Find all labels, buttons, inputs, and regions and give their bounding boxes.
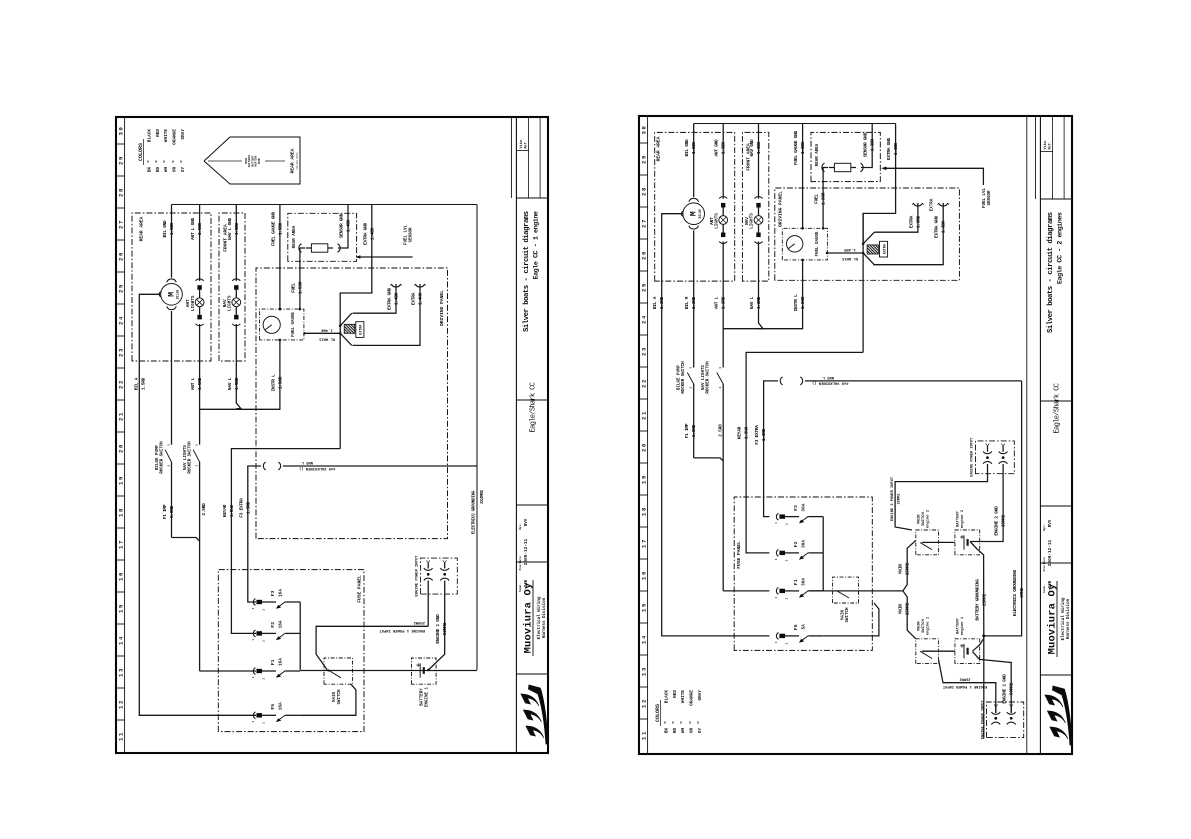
svg-text:F1 IMP: F1 IMP	[684, 423, 690, 438]
svg-text:RED: RED	[673, 690, 678, 698]
fuse output bus	[822, 517, 824, 591]
svg-text:F1 IMP: F1 IMP	[162, 504, 168, 519]
svg-text:GY: GY	[698, 728, 703, 734]
svg-text:NAV LIGHTS: NAV LIGHTS	[702, 365, 706, 390]
svg-text:GY: GY	[181, 167, 186, 173]
svg-text:EXTRA GND: EXTRA GND	[387, 288, 393, 310]
bullet wires	[427, 581, 429, 595]
svg-text:F3: F3	[793, 505, 799, 511]
svg-text:=: =	[155, 160, 160, 163]
fuel wire	[299, 248, 301, 309]
lamp NAV	[232, 279, 240, 281]
svg-text:=: =	[180, 160, 185, 163]
svg-text:26: 26	[641, 250, 648, 260]
svg-text:RVV: RVV	[525, 518, 529, 526]
svg-text:Eagle/Shark CC: Eagle/Shark CC	[530, 382, 538, 432]
svg-text:14: 14	[641, 634, 648, 644]
svg-text:1.4BK: 1.4BK	[346, 219, 352, 232]
title block strip	[515, 117, 517, 753]
svg-text:EXTRA: EXTRA	[411, 292, 417, 305]
motor M bilge pump	[161, 283, 183, 305]
svg-text:1.3RD: 1.3RD	[691, 296, 697, 309]
fuse panel dashed box	[218, 570, 364, 732]
svg-text:EXTRA: EXTRA	[908, 215, 914, 228]
svg-text:F3 EXTRA: F3 EXTRA	[238, 498, 244, 518]
svg-text:Suun.: Suun.	[519, 583, 522, 592]
page 1 : Eagle CC - 1 engine schematic (rotated)	[115, 116, 549, 754]
svg-text:EXTRA: EXTRA	[883, 243, 887, 254]
svg-text:25MM2: 25MM2	[898, 493, 902, 504]
svg-text:EXTRA GND: EXTRA GND	[362, 223, 368, 245]
svg-text:LIGHTS: LIGHTS	[228, 295, 233, 311]
svg-text:20: 20	[118, 443, 125, 453]
svg-text:MAIN: MAIN	[918, 514, 922, 524]
svg-text:NAV L: NAV L	[227, 377, 233, 390]
svg-text:Eagle CC - 2 engines: Eagle CC - 2 engines	[1056, 212, 1064, 284]
svg-text:EXTRA GND: EXTRA GND	[934, 216, 940, 238]
wire BIL A	[662, 214, 770, 636]
fuel gauge dashed box	[782, 228, 827, 260]
main line to battery	[300, 670, 477, 672]
svg-text:15: 15	[641, 602, 648, 612]
svg-text:BILGE PUMP: BILGE PUMP	[156, 445, 160, 470]
svg-text:REAR AREA: REAR AREA	[293, 225, 297, 248]
svg-text:ENGINE 1 POWER INPUT: ENGINE 1 POWER INPUT	[942, 684, 987, 688]
svg-text:1.3RD: 1.3RD	[721, 296, 727, 309]
svg-text:FUEL LVL: FUEL LVL	[983, 187, 987, 208]
svg-text:ENGINE 1 GND: ENGINE 1 GND	[1002, 674, 1008, 704]
svg-text:Eagle CC - 1 engine: Eagle CC - 1 engine	[532, 211, 540, 279]
svg-text:NAV LIGHTS: NAV LIGHTS	[184, 445, 188, 470]
svg-text:BATTERY: BATTERY	[421, 688, 425, 706]
svg-text:RVV: RVV	[1049, 519, 1053, 527]
ground bus wire	[172, 204, 478, 206]
svg-text:3: 3	[719, 367, 722, 369]
svg-text:MAIN: MAIN	[841, 610, 845, 620]
svg-text:ENGINE 1: ENGINE 1	[425, 687, 429, 707]
kl wh15 wire	[827, 252, 863, 254]
main switch engine 1 box	[916, 639, 939, 664]
svg-text:F2: F2	[270, 622, 276, 628]
battery engine 2 box	[955, 530, 980, 555]
svg-text:1.4BK: 1.4BK	[369, 227, 375, 240]
svg-text:OR: OR	[173, 167, 178, 173]
svg-text:LIGHTS: LIGHTS	[191, 295, 196, 311]
driving panel dashed box	[256, 268, 448, 539]
svg-text:FUSE PANEL: FUSE PANEL	[357, 575, 363, 603]
svg-text:4x0 VALKOINEN (): 4x0 VALKOINEN ()	[812, 381, 848, 386]
svg-text:2: 2	[786, 642, 789, 644]
fuel gauge	[263, 316, 280, 333]
svg-text:engine 1: engine 1	[960, 616, 965, 635]
battery symbol	[419, 663, 421, 677]
extra socket arcs	[391, 284, 400, 287]
svg-text:Suun.: Suun.	[1043, 584, 1046, 593]
svg-text:FUEL: FUEL	[290, 283, 296, 293]
svg-text:1.3RD: 1.3RD	[659, 296, 665, 309]
svg-text:NAV L GND: NAV L GND	[227, 218, 233, 240]
svg-text:REAR AREA: REAR AREA	[139, 216, 145, 241]
svg-text:2X4MM2: 2X4MM2	[480, 489, 485, 503]
nav lights chain	[235, 205, 237, 282]
svg-text:2: 2	[167, 464, 170, 466]
fuse F2 30A	[776, 550, 778, 557]
engine 1 power input box	[987, 702, 1024, 738]
svg-text:ENGINE 2 POWER INPUT: ENGINE 2 POWER INPUT	[891, 476, 895, 521]
svg-text:RD: RD	[673, 728, 678, 734]
svg-text:DRIVING PANEL: DRIVING PANEL	[778, 191, 784, 227]
svg-text:=: =	[680, 721, 685, 724]
svg-text:FUEL GAUGE: FUEL GAUGE	[816, 231, 820, 256]
extra continue to F2	[862, 213, 864, 352]
svg-text:25MM2: 25MM2	[905, 562, 911, 575]
front area dashed box	[742, 132, 768, 281]
svg-text:F1: F1	[793, 579, 799, 585]
svg-text:EXTRA: EXTRA	[931, 198, 935, 211]
svg-text:20: 20	[641, 442, 648, 452]
engine 1 gnd wire	[429, 594, 445, 670]
svg-text:25MM2: 25MM2	[959, 677, 970, 681]
svg-text:2: 2	[786, 597, 789, 599]
svg-text:1.5GR: 1.5GR	[277, 376, 283, 389]
svg-text:25: 25	[641, 282, 648, 292]
svg-text:FUSE PANEL: FUSE PANEL	[736, 541, 742, 569]
svg-text:1.3BK: 1.3BK	[800, 141, 806, 154]
rear area dashed box	[655, 132, 735, 281]
svg-text:Viim.: Viim.	[1043, 139, 1048, 149]
svg-text:19: 19	[641, 474, 648, 484]
rocker switch	[171, 462, 173, 463]
svg-text:Hyv.: Hyv.	[519, 523, 522, 530]
svg-text:WH: WH	[681, 728, 686, 734]
svg-text:17: 17	[641, 538, 648, 548]
svg-text:KL WH15: KL WH15	[318, 337, 335, 341]
svg-text:3: 3	[195, 444, 198, 446]
merge vertical	[723, 328, 803, 330]
svg-text:DRIVING PANEL: DRIVING PANEL	[439, 290, 445, 326]
inner frame line	[1026, 116, 1028, 754]
svg-text:RD: RD	[156, 167, 161, 173]
svg-text:WH: WH	[164, 167, 169, 173]
svg-text:35MM2: 35MM2	[1001, 514, 1007, 527]
extra gnd wire	[863, 124, 896, 244]
svg-text:BILGE: BILGE	[176, 289, 180, 299]
ant lights chain	[199, 205, 201, 282]
svg-text:SAILING AREAS: SAILING AREAS	[296, 152, 299, 170]
svg-text:11: 11	[641, 730, 648, 740]
svg-text:2: 2	[786, 523, 789, 525]
svg-text:LIGHTS: LIGHTS	[750, 213, 755, 229]
extra gnd wire	[340, 205, 372, 449]
grounding bottom wire	[476, 205, 478, 670]
main switch box	[833, 577, 859, 603]
battery box	[412, 658, 437, 684]
svg-text:FUEL GAUGE GND: FUEL GAUGE GND	[270, 211, 276, 246]
svg-text:2009-12-11: 2009-12-11	[1048, 539, 1053, 566]
battery symbol	[963, 644, 965, 658]
svg-text:SENSOR: SENSOR	[988, 190, 992, 206]
bilge pump rocker switch	[171, 463, 173, 538]
svg-text:2: 2	[263, 640, 266, 642]
fuel gauge gnd chain	[802, 124, 804, 229]
svg-text:BLACK: BLACK	[148, 129, 153, 143]
svg-text:FUEL LVL: FUEL LVL	[405, 224, 409, 245]
fuse F3 30A	[776, 513, 778, 520]
svg-text:=: =	[688, 721, 693, 724]
front area dashed box	[219, 213, 245, 361]
svg-text:12: 12	[118, 699, 125, 709]
rear area sender box	[811, 132, 880, 181]
svg-text:=: =	[697, 721, 702, 724]
svg-text:BATTERY: BATTERY	[957, 510, 961, 527]
svg-text:2.5RD: 2.5RD	[720, 424, 724, 437]
inline connector	[263, 462, 265, 470]
svg-text:F1: F1	[270, 659, 276, 665]
page border frame	[639, 116, 1072, 754]
svg-text:5A: 5A	[801, 624, 806, 630]
ant lights chain	[722, 124, 724, 199]
svg-text:ANT GND: ANT GND	[714, 139, 720, 157]
svg-text:engine 1: engine 1	[925, 616, 930, 635]
svg-text:1.3GR: 1.3GR	[800, 296, 806, 309]
svg-text:EXTRA: EXTRA	[360, 324, 364, 335]
svg-text:Electrical Wiring: Electrical Wiring	[537, 596, 542, 639]
svg-text:Ref.: Ref.	[1048, 141, 1053, 149]
svg-text:25MM2: 25MM2	[905, 602, 911, 615]
svg-text:18: 18	[118, 507, 125, 517]
svg-text:ROCKER SWITCH: ROCKER SWITCH	[707, 361, 711, 394]
svg-text:SWITCH: SWITCH	[922, 618, 926, 632]
battery grounding bus	[973, 639, 984, 652]
motor M bilge pump	[683, 203, 705, 225]
svg-text:13: 13	[118, 667, 125, 677]
svg-text:1.3RD: 1.3RD	[761, 428, 767, 441]
svg-text:Eagle/Shark CC: Eagle/Shark CC	[1054, 383, 1062, 433]
svg-text:BIL M: BIL M	[684, 296, 690, 309]
svg-text:ENGINE 2 GND: ENGINE 2 GND	[994, 506, 1000, 536]
svg-text:KEYAR: KEYAR	[737, 426, 743, 439]
svg-text:Pvm/Date: Pvm/Date	[1042, 557, 1046, 572]
svg-text:1: 1	[252, 676, 255, 678]
engine power feed diagonal	[316, 626, 428, 670]
main switch engine 2 box	[916, 530, 939, 555]
svg-text:OR: OR	[690, 728, 695, 734]
battery engine 1 box	[955, 639, 980, 664]
rocker switch	[693, 384, 695, 385]
svg-text:=: =	[663, 721, 668, 724]
svg-text:engine 2: engine 2	[925, 509, 930, 528]
svg-text:F5: F5	[793, 624, 799, 630]
svg-text:GRAY: GRAY	[181, 129, 186, 140]
engine 2 gnd wire	[970, 464, 1003, 542]
svg-text:23: 23	[118, 347, 125, 357]
svg-text:14: 14	[118, 635, 125, 645]
fork to two engines	[903, 591, 916, 639]
svg-text:1.4GR: 1.4GR	[321, 328, 333, 332]
svg-text:REAR AREA: REAR AREA	[656, 136, 662, 161]
lamp NAV	[755, 197, 763, 199]
svg-text:KEYAR: KEYAR	[222, 504, 228, 517]
svg-text:4x0 VALKOINEN (): 4x0 VALKOINEN ()	[299, 466, 335, 471]
svg-text:BK: BK	[665, 728, 670, 734]
svg-text:1.5BK: 1.5BK	[169, 222, 175, 235]
svg-text:50MM2: 50MM2	[1009, 682, 1015, 695]
fuel gauge gnd chain	[279, 205, 281, 310]
svg-text:MAIN: MAIN	[918, 621, 922, 631]
rear area dashed box	[132, 213, 211, 361]
svg-text:27: 27	[118, 219, 125, 229]
svg-text:24: 24	[641, 314, 648, 324]
fuse F5 5A	[776, 633, 778, 640]
svg-text:30A: 30A	[801, 578, 806, 586]
svg-text:SWITCH: SWITCH	[338, 689, 342, 704]
svg-text:=: =	[163, 160, 168, 163]
engine power input connector box	[421, 558, 458, 594]
svg-text:16A: 16A	[278, 658, 283, 666]
driving panel dashed box	[775, 188, 960, 280]
svg-text:REAR AREA: REAR AREA	[816, 143, 820, 166]
svg-text:25MM2: 25MM2	[981, 593, 987, 606]
svg-text:27: 27	[641, 218, 648, 228]
fuel level sender resistor	[299, 244, 302, 252]
svg-text:BLACK: BLACK	[665, 690, 670, 704]
svg-text:16A: 16A	[278, 589, 283, 597]
svg-text:12: 12	[641, 698, 648, 708]
svg-text:ANT L: ANT L	[714, 296, 720, 309]
svg-text:RED: RED	[156, 129, 161, 137]
svg-text:29: 29	[118, 155, 125, 165]
svg-text:1.3BK: 1.3BK	[870, 138, 876, 151]
svg-text:1.5RD: 1.5RD	[234, 377, 240, 390]
svg-text:ELECTRICS GROUNDING: ELECTRICS GROUNDING	[1012, 569, 1018, 616]
fuel wire	[823, 168, 828, 229]
svg-text:1.3BK: 1.3BK	[941, 220, 947, 233]
svg-text:F3 EXTRA: F3 EXTRA	[754, 425, 760, 445]
svg-text:2: 2	[719, 386, 722, 388]
svg-text:FUEL GAUGE: FUEL GAUGE	[292, 312, 296, 337]
svg-text:MAIN: MAIN	[898, 604, 904, 614]
svg-text:24: 24	[118, 315, 125, 325]
svg-text:BIL GND: BIL GND	[162, 220, 168, 238]
svg-text:Harness Division: Harness Division	[542, 597, 547, 638]
svg-text:1.5BK: 1.5BK	[691, 141, 697, 154]
svg-text:25MM2: 25MM2	[413, 620, 425, 624]
svg-text:Hyv.: Hyv.	[1043, 524, 1046, 531]
svg-text:3: 3	[690, 367, 693, 369]
svg-text:ENGINE POWER INPUT: ENGINE POWER INPUT	[982, 700, 986, 740]
svg-text:ELECTRICS GROUNDING: ELECTRICS GROUNDING	[472, 490, 477, 534]
svg-text:1.3WH: 1.3WH	[744, 426, 750, 439]
rocker switch	[722, 384, 724, 385]
merge vertical nav instr	[200, 408, 281, 410]
svg-text:BILGE: BILGE	[698, 209, 702, 219]
fuse F5 16A	[253, 712, 255, 719]
page border frame	[116, 117, 548, 753]
svg-text:ROCKER SWITCH: ROCKER SWITCH	[189, 441, 193, 474]
ground bus wire	[694, 123, 896, 125]
svg-text:1: 1	[252, 639, 255, 641]
engine 2 power wire	[895, 464, 987, 530]
svg-text:1.5BK: 1.5BK	[234, 222, 240, 235]
svg-text:SENSOR: SENSOR	[409, 227, 413, 243]
svg-text:NAV L: NAV L	[749, 296, 755, 309]
kl wh15 wire	[304, 332, 340, 334]
svg-text:F2: F2	[793, 541, 799, 547]
svg-text:SJK: SJK	[525, 579, 529, 587]
muoviura logo	[528, 685, 548, 744]
svg-text:=: =	[672, 721, 677, 724]
svg-text:ROCKER SWITCH: ROCKER SWITCH	[161, 441, 165, 474]
svg-text:ENGINE 1 GND: ENGINE 1 GND	[435, 614, 441, 644]
rear area fuel sender dashed box	[288, 213, 357, 261]
svg-text:1.4WH: 1.4WH	[418, 292, 424, 305]
svg-text:1.5RD: 1.5RD	[245, 501, 251, 514]
svg-text:1.3BK: 1.3BK	[756, 141, 762, 154]
inline connector chain to F3	[283, 465, 477, 467]
svg-text:1.3GR: 1.3GR	[821, 192, 827, 205]
main switch box	[324, 658, 353, 684]
svg-text:2: 2	[195, 464, 198, 466]
svg-text:1.5RD: 1.5RD	[141, 377, 147, 390]
fuse F1 16A	[253, 668, 255, 675]
svg-text:16A: 16A	[278, 702, 283, 710]
svg-text:BATTERY: BATTERY	[957, 617, 961, 634]
svg-text:=: =	[146, 160, 151, 163]
svg-text:NNS L: NNS L	[822, 375, 834, 379]
svg-text:15: 15	[118, 603, 125, 613]
svg-text:16: 16	[641, 570, 648, 580]
svg-text:WHITE: WHITE	[164, 129, 169, 143]
svg-text:1: 1	[775, 596, 778, 598]
lamp ANT	[719, 197, 727, 199]
svg-text:2009-12-11: 2009-12-11	[524, 538, 529, 565]
svg-text:FUEL GAUGE GND: FUEL GAUGE GND	[793, 130, 799, 165]
bilge motor chain	[693, 124, 695, 198]
instr wire from gauge	[279, 340, 281, 409]
svg-text:engine 2: engine 2	[960, 509, 965, 528]
svg-text:30: 30	[641, 125, 648, 135]
extra connector assembly	[339, 324, 342, 327]
nav lights chain	[758, 124, 760, 199]
svg-text:NAV GND: NAV GND	[749, 139, 755, 157]
svg-text:21: 21	[118, 411, 125, 421]
svg-text:6.0RD: 6.0RD	[691, 424, 697, 437]
svg-text:KL WH15: KL WH15	[841, 256, 858, 260]
svg-text:1.5RD: 1.5RD	[197, 377, 203, 390]
svg-text:ROCKER SWITCH: ROCKER SWITCH	[682, 361, 686, 394]
svg-text:1.4BK: 1.4BK	[394, 292, 400, 305]
svg-text:2: 2	[690, 386, 693, 388]
svg-text:13: 13	[641, 666, 648, 676]
svg-text:=: =	[171, 160, 176, 163]
fuse panel dashed box	[734, 497, 872, 650]
svg-text:BATTERY GROUNDING: BATTERY GROUNDING	[974, 579, 980, 621]
svg-text:30A: 30A	[801, 540, 806, 548]
svg-text:GRAY: GRAY	[698, 690, 703, 701]
svg-text:22: 22	[118, 379, 125, 389]
boat outline rear area	[204, 137, 300, 184]
wire keyar to F2	[231, 449, 340, 634]
main line	[808, 590, 903, 592]
wire bilge motor chain	[171, 205, 173, 278]
svg-text:28: 28	[118, 187, 125, 197]
wire to fuse F1	[200, 670, 256, 672]
svg-text:16: 16	[118, 571, 125, 581]
svg-text:WHITE: WHITE	[681, 690, 686, 704]
svg-text:F5: F5	[270, 704, 276, 710]
svg-text:SENSOR GND: SENSOR GND	[339, 213, 345, 238]
svg-text:BILGE PUMP: BILGE PUMP	[678, 365, 682, 390]
